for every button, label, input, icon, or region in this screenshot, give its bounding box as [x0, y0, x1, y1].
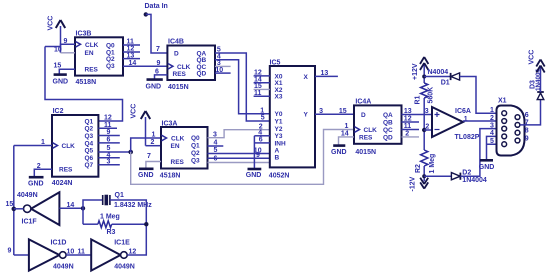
svg-text:CLK: CLK [177, 64, 191, 71]
svg-text:15: 15 [339, 108, 347, 115]
svg-text:INH: INH [275, 140, 287, 147]
svg-text:IC1D: IC1D [51, 240, 67, 247]
svg-text:IC3B: IC3B [76, 31, 92, 38]
svg-text:6: 6 [525, 112, 529, 119]
svg-text:13: 13 [321, 70, 329, 77]
svg-text:QC: QC [383, 127, 393, 134]
svg-text:11: 11 [127, 39, 135, 46]
svg-text:GND: GND [479, 164, 495, 171]
wire IC4A QD stub pin 2 [402, 131, 420, 138]
svg-text:6: 6 [155, 68, 159, 75]
svg-text:3: 3 [213, 131, 217, 138]
svg-text:Q3: Q3 [85, 133, 94, 140]
svg-text:1: 1 [345, 123, 349, 130]
svg-text:Q1: Q1 [115, 192, 124, 199]
wire IC3B EN pin 10 from VCC [54, 47, 75, 54]
svg-text:D: D [174, 51, 179, 58]
svg-text:IC6A: IC6A [455, 108, 471, 115]
svg-text:IC4A: IC4A [355, 99, 371, 106]
wire IC3A Q1 stub pin 4 [208, 140, 224, 147]
wire op-amp output pin 1 to X1 pin 2 [463, 120, 502, 122]
svg-text:Q5: Q5 [85, 148, 94, 155]
wire IC4B QD stub pin 10 [215, 67, 231, 74]
wire IC5 X2 stub pin 15 [254, 83, 270, 90]
svg-text:D2: D2 [462, 169, 471, 176]
wire R2 to -12V [423, 166, 425, 181]
svg-text:VCC: VCC [529, 50, 536, 65]
wire baud node to IC4A CLK pin 1 [131, 123, 354, 184]
wire node to op-amp inverting input pin 2 [424, 124, 432, 131]
svg-text:11: 11 [104, 122, 112, 129]
wire X1 pins 4,5 to ground [487, 136, 502, 159]
svg-text:8: 8 [525, 128, 529, 135]
node junction R2/D2 [422, 174, 426, 178]
svg-text:2: 2 [425, 124, 429, 131]
svg-text:1: 1 [41, 139, 45, 146]
svg-text:GND: GND [53, 79, 69, 86]
svg-text:D1: D1 [441, 80, 450, 87]
svg-text:1: 1 [490, 107, 494, 114]
wire IC3A Q2 pin 5 to IC5 A pin 10 [208, 147, 270, 154]
svg-text:Q0: Q0 [106, 42, 115, 49]
wire IC2 Q1 pin 12 up to IC3B CLK [45, 47, 123, 122]
svg-text:7: 7 [156, 46, 160, 53]
wire IC1F input pin 14 to crystal node [59, 202, 83, 209]
svg-text:Q3: Q3 [106, 63, 115, 70]
svg-text:4: 4 [214, 140, 218, 147]
wire IC4B QA pin 5 to IC5 Y1 [215, 47, 270, 121]
wire IC5 X3 stub pin 11 [254, 90, 270, 97]
wire IC4A QA pin 13 to op-amp non-inverting input pin 3 [402, 108, 433, 115]
wire IC4A RES pin 14 [339, 131, 355, 145]
wire IC4A QC stub pin 11 [402, 123, 420, 130]
svg-text:15: 15 [54, 62, 62, 69]
wire IC3B Q3 pin 14 to IC4B CLK pin 9 [123, 60, 167, 67]
svg-text:3: 3 [490, 122, 494, 129]
svg-text:Q3: Q3 [191, 157, 200, 164]
inverter IC1F 4049N [6, 192, 60, 226]
svg-text:R1: R1 [415, 95, 422, 104]
svg-text:CLK: CLK [171, 136, 185, 143]
wire IC5 X output stub pin 13 [315, 70, 338, 77]
svg-text:CLK: CLK [62, 143, 76, 150]
svg-text:A: A [275, 148, 280, 155]
svg-text:QD: QD [197, 71, 207, 78]
wire IC5 Y output pin 3 to IC4A D pin 15 [315, 108, 354, 115]
svg-text:12: 12 [129, 249, 137, 256]
wire IC5 ground rail vertical [253, 136, 255, 168]
ground (X1) [479, 160, 495, 171]
svg-text:4015N: 4015N [168, 84, 189, 91]
svg-text:GND: GND [331, 149, 347, 156]
svg-text:+12V: +12V [412, 63, 419, 80]
svg-text:RES: RES [171, 159, 185, 166]
svg-text:4024N: 4024N [52, 180, 73, 187]
svg-text:Y1: Y1 [275, 118, 283, 125]
power VCC (top left) [48, 16, 66, 53]
svg-text:7: 7 [147, 153, 151, 160]
svg-text:Q1: Q1 [191, 143, 200, 150]
svg-text:13: 13 [127, 52, 135, 59]
node junction IC1F output [12, 207, 17, 212]
wire IC1F output bubble to rail [14, 208, 24, 210]
svg-text:TL082P: TL082P [455, 134, 480, 141]
ground (IC3A) [138, 169, 154, 179]
node junction R3 right [144, 222, 148, 226]
svg-text:5: 5 [261, 115, 265, 122]
diode D1 N4004 [428, 69, 460, 87]
svg-text:5: 5 [490, 138, 494, 145]
svg-text:5: 5 [214, 147, 218, 154]
IC3A counter 4518N [160, 121, 208, 180]
wire crystal branch left [83, 200, 103, 224]
svg-text:6: 6 [214, 156, 218, 163]
wire D2 to X1 pin 3 [460, 129, 501, 177]
svg-text:11: 11 [254, 90, 262, 97]
svg-text:RES: RES [59, 167, 73, 174]
wire IC3B Q0 stub pin 11 [123, 39, 140, 46]
wire IC2 CLK pin 1 from IC1F output [14, 139, 52, 146]
diode D2 1N4004 [451, 169, 487, 184]
connector X1 DB9 [497, 98, 525, 156]
svg-text:IC2: IC2 [53, 108, 64, 115]
svg-text:10: 10 [54, 47, 62, 54]
svg-text:12: 12 [104, 115, 112, 122]
svg-text:X1: X1 [498, 98, 507, 105]
svg-text:4015N: 4015N [355, 149, 376, 156]
wire IC3B Q1 stub pin 12 [123, 46, 140, 53]
svg-text:5: 5 [107, 145, 111, 152]
svg-text:Q2: Q2 [191, 150, 200, 157]
IC2 ripple counter 4024N [52, 108, 99, 187]
svg-text:IC1F: IC1F [22, 219, 38, 226]
node junction R1/D1 [422, 75, 426, 79]
resistor R3 1 Meg [83, 213, 146, 236]
svg-text:Q2: Q2 [106, 56, 115, 63]
svg-text:1: 1 [260, 107, 264, 114]
svg-text:3: 3 [425, 108, 429, 115]
wire IC4A QB stub pin 12 [402, 116, 420, 123]
node Data In [144, 3, 168, 17]
wire IC1D output pin 10 to IC1E input pin 11 [66, 249, 91, 256]
svg-text:6: 6 [107, 137, 111, 144]
svg-text:GND: GND [246, 172, 262, 179]
svg-text:Y: Y [304, 112, 309, 119]
svg-text:12: 12 [404, 116, 412, 123]
inverter IC1D 4049N [29, 239, 74, 270]
svg-text:RES: RES [173, 71, 187, 78]
svg-text:QD: QD [383, 134, 393, 141]
power VCC (right) [529, 50, 545, 92]
svg-text:Q2: Q2 [85, 126, 94, 133]
svg-text:Q4: Q4 [85, 140, 94, 147]
svg-text:IC5: IC5 [270, 60, 281, 67]
wire baud node up to IC3A CLK pin 1 [131, 131, 161, 152]
wire IC5 INH pin 6 to ground rail [254, 137, 269, 144]
svg-text:Q7: Q7 [85, 162, 94, 169]
svg-text:11: 11 [78, 249, 86, 256]
wire IC3A RES pin 7 [146, 153, 161, 168]
svg-text:14: 14 [129, 60, 137, 67]
svg-text:10: 10 [67, 249, 75, 256]
wire IC2 Q7 stub pin 3 [98, 159, 119, 166]
svg-text:EN: EN [171, 143, 180, 150]
svg-text:VCC: VCC [48, 16, 55, 31]
svg-text:Data In: Data In [145, 3, 168, 10]
wire IC1E output pin 12 to oscillator rail [127, 249, 146, 256]
svg-text:1N4004: 1N4004 [462, 177, 487, 184]
svg-text:4049N: 4049N [53, 264, 74, 271]
svg-text:X3: X3 [275, 94, 283, 101]
svg-text:9: 9 [525, 135, 529, 142]
svg-text:4: 4 [258, 129, 262, 136]
wire IC2 Q3 stub pin 9 [98, 129, 119, 136]
svg-text:13: 13 [404, 108, 412, 115]
svg-text:X: X [304, 74, 309, 81]
node junction crystal/R3 left [81, 206, 85, 210]
svg-text:4049N: 4049N [17, 192, 38, 199]
svg-text:EN: EN [85, 50, 94, 57]
wire spare (gray) IC3A to IC5 [208, 162, 270, 164]
svg-text:6: 6 [259, 137, 263, 144]
svg-text:Y2: Y2 [275, 126, 283, 133]
wire IC5 Y3 pin 4 to ground rail [254, 129, 269, 136]
wire crystal to right rail [110, 200, 146, 253]
wire IC2 RES pin 2 [34, 163, 52, 176]
resistor R1 560K [415, 83, 435, 105]
wire IC3A Q3 pin 6 to IC5 B pin 9 [208, 152, 270, 163]
svg-text:4049N: 4049N [114, 264, 135, 271]
IC3B counter 4518N [75, 31, 123, 87]
wire IC2 Q2 stub pin 11 [98, 122, 117, 129]
node junction op-amp inverting input [422, 128, 426, 132]
ground (IC5) [246, 169, 262, 179]
svg-text:CLK: CLK [85, 42, 99, 49]
svg-text:Q0: Q0 [191, 135, 200, 142]
svg-text:QB: QB [383, 120, 393, 127]
svg-text:1 Meg: 1 Meg [429, 154, 436, 174]
svg-text:Q1: Q1 [85, 118, 94, 125]
svg-text:R3: R3 [107, 229, 116, 236]
svg-text:Y0: Y0 [275, 111, 283, 118]
op-amp IC6A TL082P [432, 107, 480, 141]
wire IC5 X1 stub pin 14 [254, 76, 270, 83]
resistor R2 1 Meg [415, 150, 436, 174]
svg-text:2: 2 [490, 115, 494, 122]
wire Data In to IC4B D pin 7 [146, 14, 168, 53]
svg-text:QA: QA [383, 112, 393, 119]
inverter IC1E 4049N [91, 239, 135, 270]
svg-text:RES: RES [359, 134, 373, 141]
wire IC3B Q2 stub pin 13 [123, 52, 140, 59]
wire VCC to IC3A EN pin 2 [146, 139, 162, 146]
svg-text:1: 1 [464, 116, 468, 123]
svg-text:3: 3 [319, 108, 323, 115]
ground (IC4B) [146, 80, 163, 91]
crystal Q1 1.8432 MHz [103, 192, 153, 209]
svg-text:10: 10 [215, 67, 223, 74]
svg-text:-12V: -12V [410, 176, 417, 191]
wire R1 to inverting node [423, 98, 425, 150]
svg-text:11: 11 [404, 123, 412, 130]
svg-text:560K: 560K [427, 87, 434, 104]
svg-text:4: 4 [490, 130, 494, 137]
svg-text:1: 1 [152, 131, 156, 138]
power +12V [412, 57, 428, 83]
svg-text:R2: R2 [415, 164, 422, 173]
svg-text:IC3A: IC3A [162, 121, 178, 128]
diode D3 1N4004 [530, 68, 544, 99]
wire IC1D input pin 9 [8, 248, 29, 256]
wire IC1F output to IC2 CLK and IC1D input [13, 146, 15, 256]
svg-text:IC4B: IC4B [168, 39, 184, 46]
wire IC5 X0 stub pin 12 [254, 70, 270, 77]
wire IC4B RES pin 6 [155, 68, 168, 78]
svg-text:4518N: 4518N [160, 172, 181, 179]
svg-text:B: B [275, 155, 280, 162]
wire X1 pin 7 to D3 [520, 100, 540, 127]
IC4B shift register 4015N [167, 39, 215, 92]
svg-text:D: D [361, 112, 366, 119]
node baud clock junction [128, 150, 133, 155]
wire IC4B QC stub pin 3 [215, 60, 231, 67]
wire IC4B QB pin 4 to IC5 Y0 [215, 53, 270, 113]
svg-text:Y3: Y3 [275, 133, 283, 140]
svg-text:VCC: VCC [131, 104, 138, 119]
svg-text:Q6: Q6 [85, 155, 94, 162]
ground (IC2) [28, 177, 44, 187]
svg-text:9: 9 [256, 152, 260, 159]
power -12V [410, 176, 429, 191]
svg-text:14: 14 [67, 202, 75, 209]
svg-text:GND: GND [28, 181, 44, 188]
wire IC3A Q0 pin 3 to IC5 Y2 pin 2 [208, 123, 270, 138]
svg-text:4052N: 4052N [269, 172, 290, 179]
svg-text:3: 3 [107, 159, 111, 166]
svg-text:2: 2 [405, 131, 409, 138]
wire IC3B RES pin 15 [54, 62, 76, 73]
wire IC3B CLK pin 9 [45, 38, 75, 47]
svg-text:GND: GND [146, 84, 162, 91]
svg-text:9: 9 [157, 60, 161, 67]
svg-text:7: 7 [525, 120, 529, 127]
wire -12V branch to diode D2 [424, 175, 451, 177]
wire D1 to X1 pin 1 [460, 77, 502, 114]
wire IC2 Q4 stub pin 6 [98, 137, 119, 144]
svg-text:15: 15 [6, 201, 14, 208]
IC4A shift register 4015N [354, 99, 402, 156]
IC5 analog mux 4052N [269, 60, 315, 180]
svg-text:9: 9 [8, 248, 12, 255]
svg-text:GND: GND [138, 172, 154, 179]
svg-text:1 Meg: 1 Meg [100, 213, 120, 220]
svg-text:2: 2 [37, 163, 41, 170]
wire +12V branch to diode D1 [424, 76, 450, 78]
ground (IC4A) [331, 146, 347, 156]
svg-text:9: 9 [64, 38, 68, 45]
wire IC2 Q6 stub pin 4 [98, 152, 119, 159]
svg-text:2: 2 [151, 139, 155, 146]
power VCC (above IC3A) [131, 104, 151, 146]
svg-text:RES: RES [85, 66, 99, 73]
svg-text:CLK: CLK [364, 127, 378, 134]
svg-text:9: 9 [107, 129, 111, 136]
svg-text:N4004: N4004 [428, 69, 449, 76]
svg-text:4518N: 4518N [76, 79, 97, 86]
svg-text:14: 14 [341, 131, 349, 138]
ground (IC3B) [53, 75, 69, 86]
wire IC2 Q5 pin 5 to baud clock node [98, 145, 130, 152]
svg-text:IC1E: IC1E [114, 240, 130, 247]
